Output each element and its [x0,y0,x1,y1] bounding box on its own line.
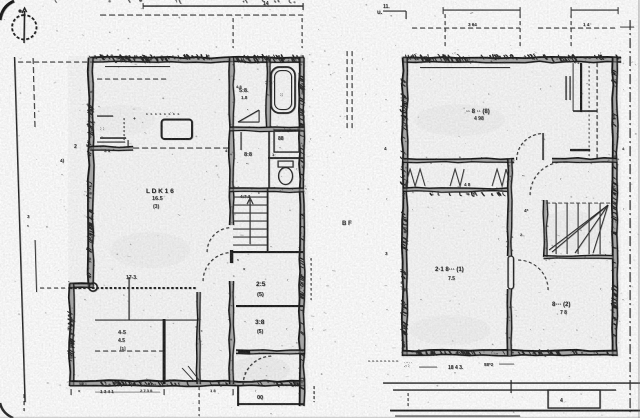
2F closet tick row [476,193,478,195]
2F stairs diagonal a [549,205,608,250]
2F top wall window inner line [420,67,510,69]
1F right wall [300,58,304,407]
site boundary dashed upper [33,58,35,130]
scan border rounded corner top-left [0,1,14,20]
2F left wall window hatch [403,101,407,103]
washitsu inner vertical [128,277,130,320]
toilet bowl [279,168,293,185]
corridor door marks [182,368,195,382]
2F dim line right [571,9,618,11]
1F left wall window hatch [88,109,93,112]
toner clouds [110,232,190,268]
2F center wall upper [508,159,512,257]
right site boundary [629,20,631,412]
2F dim step left [383,10,406,12]
2F stair door arc [530,162,563,195]
mid dashed vertical b [351,51,353,130]
washitsu inner line [95,319,199,321]
mid dashed vertical a [346,51,348,130]
2F divider door arc [542,133,544,160]
washroom fixture [238,121,259,123]
site boundary bottom stub [23,394,25,411]
2F right wall [613,58,618,357]
1F lower left wall hatch [70,338,74,340]
1F service column left wall stub [230,250,233,263]
2F closet zigzag doors [405,169,425,186]
scan edge specks top [55,0,57,3]
2F stairs diagonal b [552,205,608,252]
toilet room divider [268,157,303,159]
2F bottom wall [403,350,618,355]
hall closet divider [236,305,303,307]
closet wall vertical [163,319,166,384]
1F top wall window hatch [143,56,147,63]
1F service column left wall upper [230,58,234,226]
bathtub [271,67,295,113]
2F center wall lower [508,289,512,356]
1F top dimension dashed [100,14,303,16]
vanity box [274,130,299,152]
1F top wall window inner line [105,66,170,68]
2F bottom long line [390,410,640,412]
2F dim line mid [443,9,520,11]
stair treads 2F [555,203,557,254]
washroom bath divider [266,58,270,128]
1F left wall lower [70,284,74,387]
2F bottom dim long b [393,389,616,391]
2F dim vertical dashed b [570,14,572,48]
toner wash 1F [68,56,308,390]
1F bottom wall window hatch [113,382,115,385]
1F bottom wall [70,381,305,386]
2F main divider wall [403,158,514,162]
2F bottom dim short [368,360,398,362]
2F dim vertical dashed c [444,14,446,48]
2F center wall stub [508,256,514,289]
site boundary dashed mid [35,240,37,292]
1F dim vertical dashed b [301,18,303,48]
entrance porch bottom [238,403,304,405]
kitchen counter bar [100,137,126,139]
2F left wall [403,58,408,357]
1F right wall window hatch [300,88,305,91]
toner wash 2F [401,56,621,358]
stair side wall [267,188,269,252]
2F master closet divider [573,110,597,112]
right boundary tick [620,26,634,28]
1F bottom dim ticks [70,389,72,395]
2F master closet dashed door [596,63,598,158]
kitchen counter left [97,115,113,117]
stair treads 1F [233,196,267,198]
scan border rounded corner bottom-left [0,403,13,418]
scan edge streak bottom [0,416,640,418]
2F bottom dashed vertical [407,393,409,407]
2F stairwell left wall [544,200,547,257]
corridor wall [197,292,200,384]
stair up arrow [249,200,251,244]
washitsu inner dashed [95,350,163,352]
2F closet bottom line [403,188,507,191]
2F top wall window hatch [467,58,470,62]
entrance door arc [243,356,272,385]
site dashed connector top [18,61,88,63]
stairs top wall [230,188,305,192]
1F wall below kitchen [90,147,133,151]
kitchen upper cabinet dashed [97,78,168,80]
2F top wall [403,58,621,63]
1F dim vertical dashed a [232,18,234,48]
2F porch box [548,390,600,408]
2F door arc to bedroom2 [518,260,548,290]
1F left jog wall [70,284,94,288]
1F top wall [90,58,304,63]
kitchen island table [162,120,193,140]
door arc LDK-hall [203,253,232,282]
toilet tank [278,161,293,167]
washitsu top dashed wall [70,287,197,289]
scan speckle noise [465,143,466,144]
2F dim vertical dashed a [519,14,521,48]
2F dim dashed mid [412,27,520,29]
divider below washroom [230,127,305,131]
2F dim dashed right [538,27,618,29]
1F bottom dashed vertical [198,386,200,416]
door arc LDK-stairhall [207,228,232,253]
2F bottom wall window hatch [419,349,423,355]
1F left wall upper [89,58,94,288]
1F service column left wall lower [230,281,234,384]
2F stairs bottom wall [544,256,614,259]
stairs bottom wall [231,251,303,253]
shoe closet divider [236,350,304,353]
2F stairs top dashes [546,202,612,204]
2F master closet side [572,63,574,111]
compass north symbol [12,8,36,43]
scan edge streak right [638,0,640,418]
2F right wall window hatch [613,203,617,206]
2F master closet wall a [580,63,582,112]
2F bottom dim long a [383,382,640,384]
site dashed connector left of jog [40,287,70,289]
1F top dimension line [143,5,303,7]
site boundary slanted line left [15,57,26,402]
entrance porch left [237,386,239,406]
